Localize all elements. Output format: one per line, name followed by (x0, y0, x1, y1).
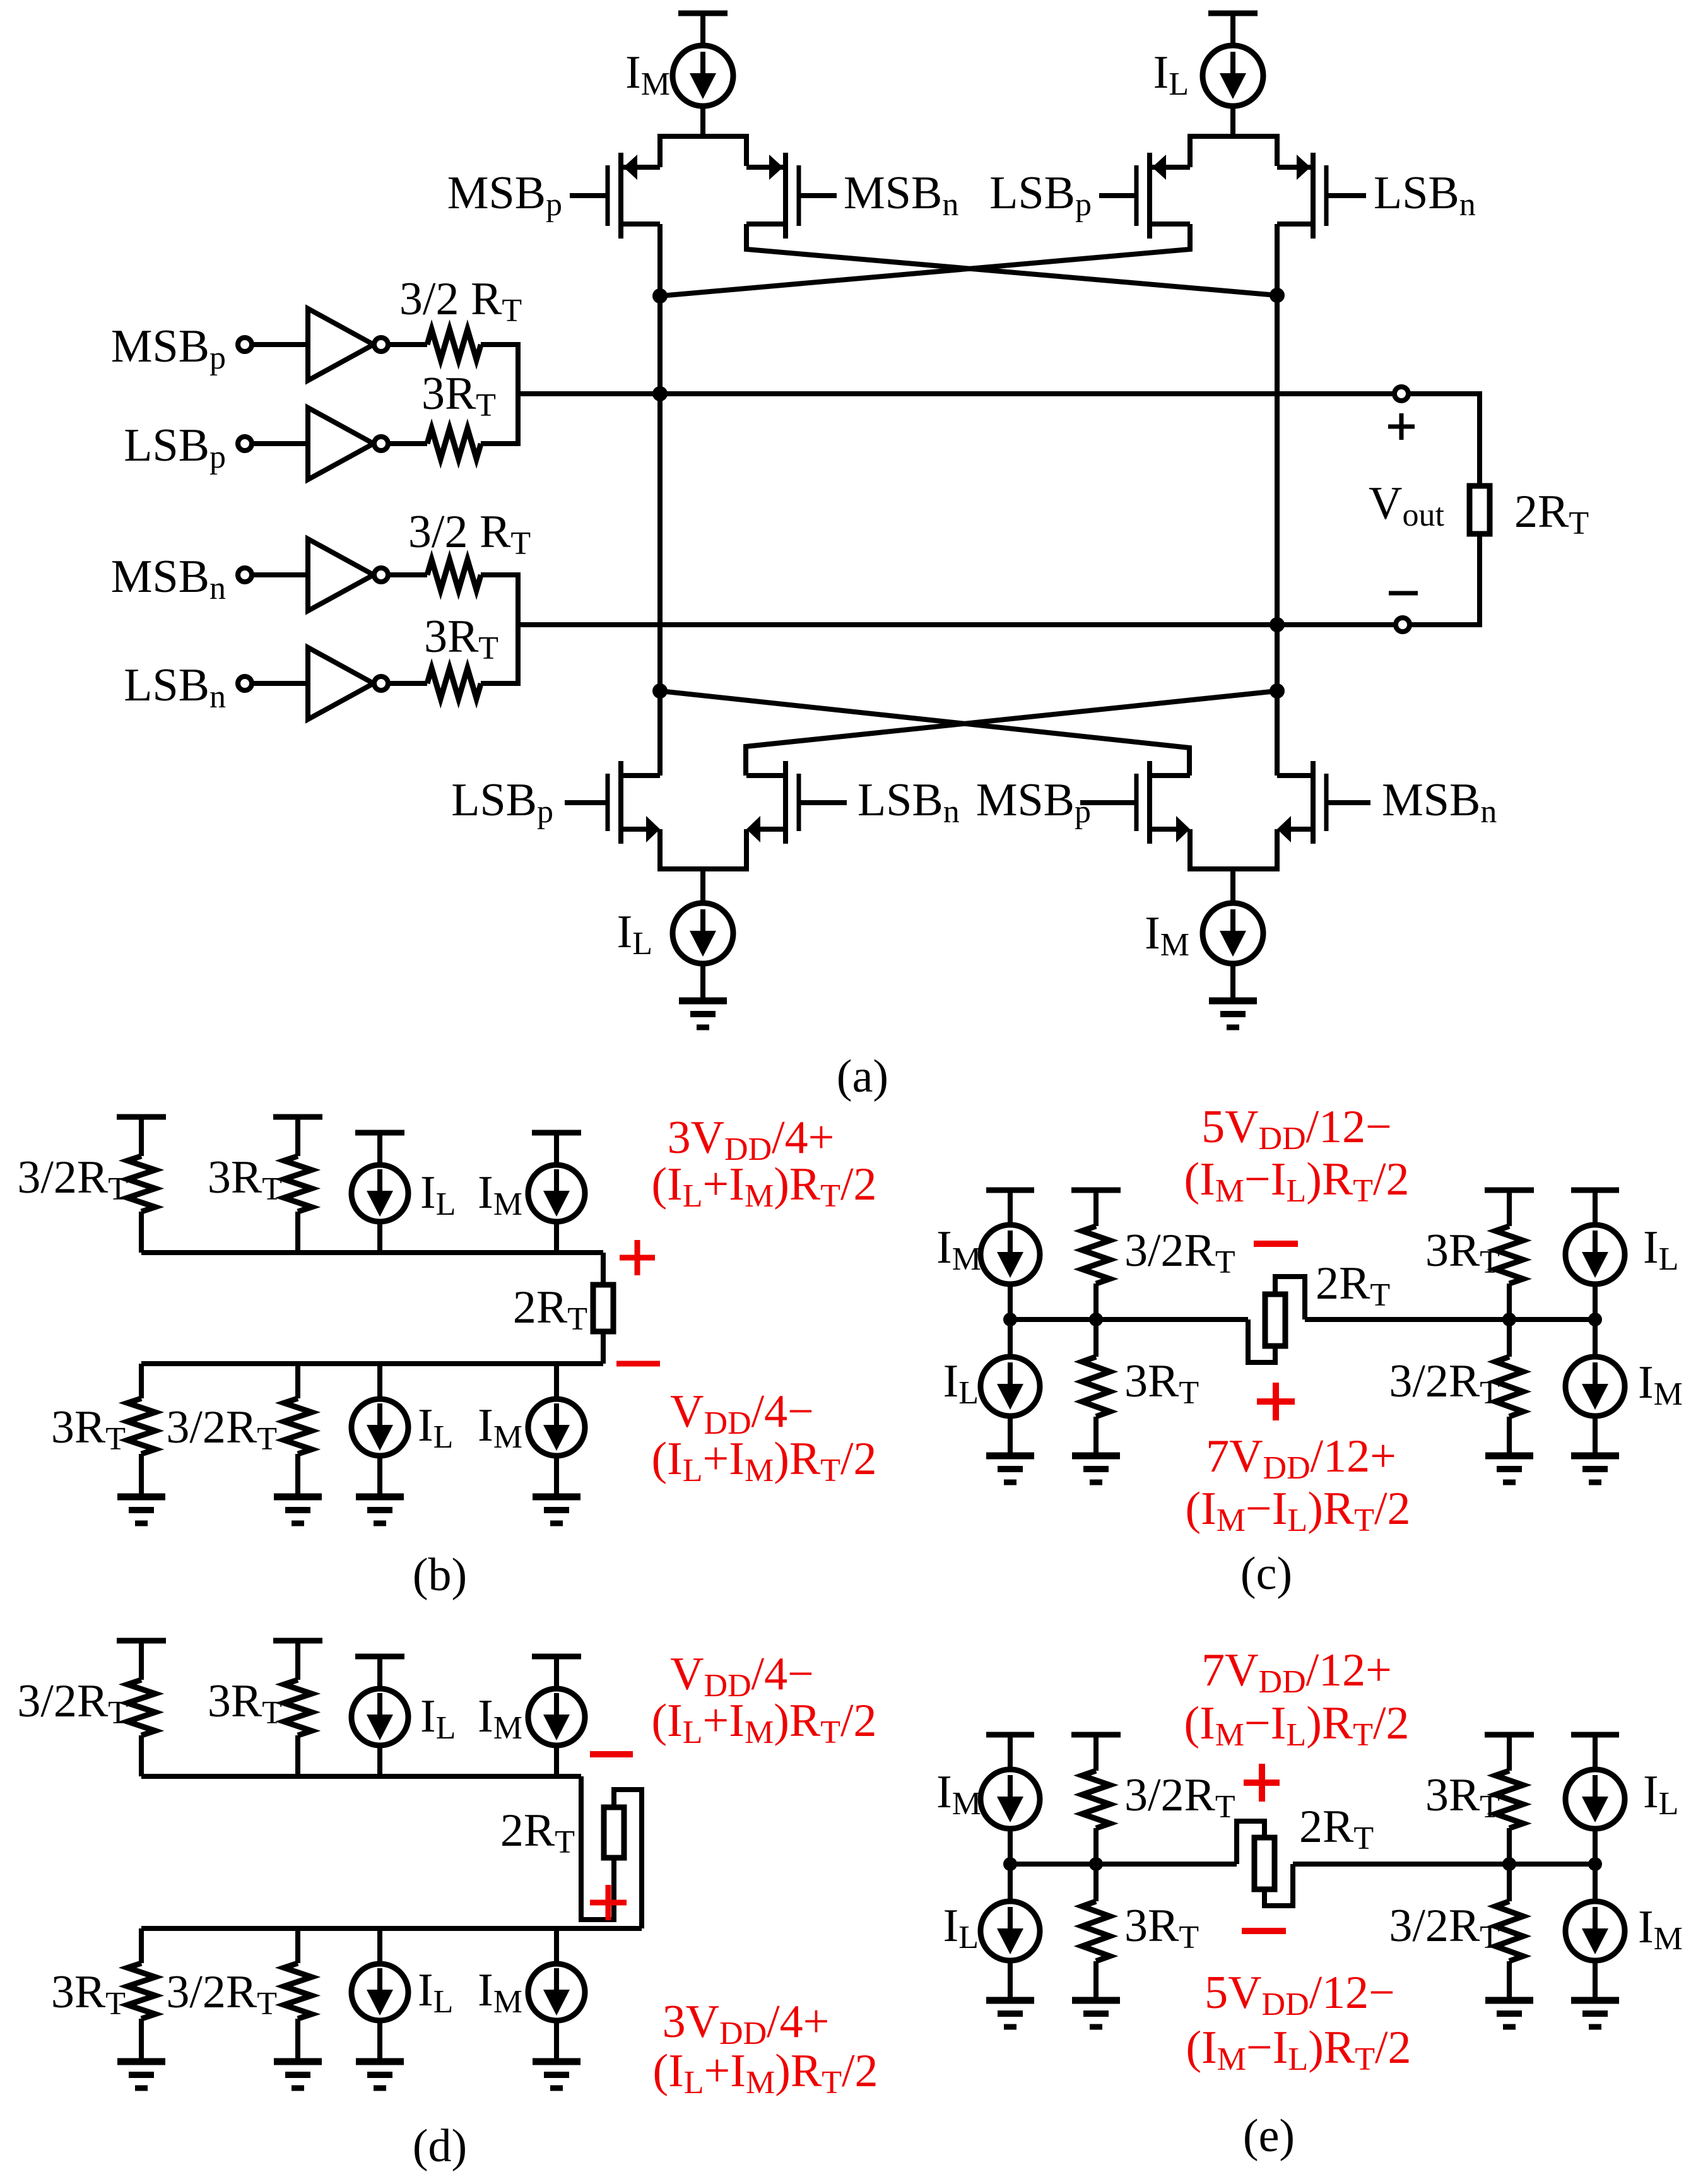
current source IM (b top) (528, 1165, 585, 1253)
transistor M1 PMOS MSBp (608, 153, 660, 239)
wire IM to ground (1230, 963, 1235, 1001)
current source IM (c top-left) (981, 1225, 1040, 1319)
transistor M7 NMOS MSBp (1136, 761, 1190, 844)
wire inverter 1 to resistor (388, 342, 427, 347)
wire gate M4 (1328, 193, 1366, 198)
current source IL (e bottom-left) (981, 1864, 1040, 2000)
node dot R (c right) (1502, 1313, 1516, 1326)
label IM (b bottom) (478, 1400, 522, 1455)
ground IL (d) (356, 2062, 404, 2088)
ground IM (b) (533, 1497, 580, 1523)
ground 3/2RT (d) (274, 2062, 322, 2088)
wire gate M2 (801, 193, 837, 198)
label 3/2RT (c top-left) (1124, 1225, 1235, 1280)
terminal - output (1396, 618, 1410, 632)
label (a) (837, 1051, 888, 1102)
current source IM (e bottom-right) (1565, 1864, 1625, 2000)
label IL (e top-right) (1643, 1766, 1678, 1822)
wire M3 drain cross to left rail (660, 224, 1190, 296)
label red formula (d) (670, 1648, 814, 1704)
label MSBn (inverter input) (111, 551, 226, 606)
wire M2 drain cross to right rail (746, 224, 1277, 295)
node dot IM/IL (c left) (1003, 1313, 1017, 1326)
label LSBp (M3 gate) (989, 167, 1092, 223)
label IM (c bottom-right) (1638, 1357, 1683, 1412)
wire inverter 3 to resistor (388, 572, 427, 577)
power VDD bar 3RT (d top) (273, 1641, 322, 1680)
label + red (c) (1257, 1383, 1295, 1420)
wire bottom bus (b) (141, 1331, 603, 1364)
label IL (c top-right) (1643, 1222, 1678, 1277)
resistor 3RT (c top-right) (1495, 1226, 1523, 1319)
ground (bottom-left) (679, 1001, 727, 1027)
wire cross left node to M5 pair (diag) (660, 691, 1189, 776)
label 3/2RT (e bottom-right) (1389, 1900, 1500, 1956)
power VDD bar IL (d top) (355, 1656, 404, 1689)
label + red (b) (620, 1240, 655, 1275)
wire jog left (e) (1237, 1821, 1264, 1864)
ground 3/2RT (c right) (1485, 1456, 1533, 1482)
wire resistor row 2 to bus (481, 441, 521, 446)
node dot - line / right rail (1270, 617, 1285, 632)
label + red (d) (590, 1885, 627, 1920)
ground 3/2RT (e right) (1485, 2000, 1533, 2027)
resistor 3RT (e bottom-left) (1082, 1864, 1110, 2000)
power VDD bar 3/2RT (e) (1071, 1735, 1121, 1771)
label 2RT (d) (500, 1805, 575, 1860)
ground 3RT (b) (117, 1497, 165, 1523)
label MSBn (M8 gate) (1382, 774, 1497, 830)
resistor 3/2RT (e bottom-right) (1495, 1864, 1523, 2000)
resistor 3/2RT (b top) (127, 1156, 155, 1253)
power VDD bar 3RT (e) (1485, 1735, 1534, 1771)
label MSBp (M1 gate) (447, 167, 562, 223)
resistor 3/2RT (d bottom) (284, 1928, 312, 2062)
wire resistor row 1 to bus (481, 342, 521, 347)
resistor 3RT (e top-right) (1495, 1771, 1523, 1864)
current source IL (top-right) (1203, 45, 1263, 106)
label red formula (b) (668, 1112, 835, 1167)
ground IM (e right) (1571, 2000, 1619, 2027)
svg-text:MSBn​: MSBn​ (844, 167, 958, 223)
label 3RT (d bottom) (51, 1966, 126, 2022)
label IL (d bottom) (418, 1964, 453, 2020)
label red formula (d) (652, 2045, 878, 2101)
label 2RT (load) (1514, 486, 1589, 541)
wire + terminal to load (1408, 394, 1480, 486)
transistor M8 NMOS MSBn (1277, 761, 1326, 844)
resistor 3/2RT (e top-left) (1082, 1771, 1110, 1864)
wire top bus (d) (141, 1776, 614, 1920)
label + red (e) (1244, 1764, 1280, 1802)
resistor 2RT (d) (604, 1807, 624, 1858)
resistor 3/2RT (row 3) (427, 560, 481, 590)
power VDD bar 3/2RT (b top) (117, 1117, 166, 1156)
current source IL (e top-right) (1565, 1769, 1625, 1864)
current source IL (bottom-left) (673, 903, 733, 964)
label red formula (c) (1206, 1431, 1396, 1486)
resistor 3RT (b bottom) (127, 1364, 155, 1497)
label red formula (d) (651, 1695, 876, 1750)
label 3RT (b bottom) (51, 1402, 126, 1457)
resistor 3/2RT (c bottom-right) (1495, 1319, 1523, 1456)
label + (Vout polarity) (1388, 413, 1415, 440)
label 3/2RT (row 3) (408, 506, 531, 562)
ground IM (d) (533, 2062, 580, 2088)
power VDD bar IM (b top) (532, 1133, 581, 1165)
power VDD bar (top-right pair) (1208, 13, 1258, 46)
label (d) (413, 2120, 467, 2172)
current source IM (bottom-right) (1203, 903, 1263, 964)
power VDD bar 3RT (b top) (273, 1117, 322, 1156)
wire tail (bottom-right pair) (1190, 829, 1277, 904)
label 3/2RT (d bottom) (166, 1966, 277, 2022)
transistor M4 PMOS LSBn (1277, 153, 1326, 239)
label IM (e bottom-right) (1638, 1901, 1683, 1957)
svg-text:MSBp​: MSBp​ (976, 774, 1091, 830)
label IM (b top) (478, 1167, 522, 1222)
power VDD bar IM (d top) (532, 1656, 581, 1689)
label 3/2RT (b top) (17, 1152, 128, 1207)
label - red (b) (616, 1361, 660, 1367)
wire summing bus (n group) (516, 575, 521, 683)
wire gate M1 (570, 193, 606, 198)
current source IL (b top) (351, 1165, 408, 1253)
node dot right (top cross) (1270, 288, 1285, 303)
node dot R (c left) (1089, 1313, 1103, 1326)
inverter U4 (LSBn) (308, 647, 388, 719)
label IM (e top-left) (936, 1766, 981, 1822)
label - (Vout polarity) (1389, 591, 1418, 596)
resistor 3/2RT (row 1) (427, 329, 481, 360)
label 3RT (b top) (208, 1152, 282, 1207)
ground (bottom-right) (1209, 1001, 1257, 1027)
node dot IL/IM (c right) (1588, 1313, 1602, 1326)
label 3RT (row 2) (421, 368, 496, 423)
svg-text:(e): (e) (1243, 2110, 1295, 2162)
transistor M3 PMOS LSBp (1136, 153, 1190, 239)
inverter U3 (MSBn) (308, 539, 388, 611)
wire gate M6 (801, 800, 847, 805)
terminal input LSBp (238, 437, 252, 451)
current source IM (c bottom-right) (1565, 1319, 1625, 1456)
wire left bus (c) (1010, 1317, 1248, 1322)
wire input to inverter 3 (252, 572, 308, 577)
label LSBp (inverter input) (124, 420, 226, 475)
label red formula (b) (670, 1386, 814, 1441)
svg-text:(c): (c) (1240, 1548, 1292, 1600)
resistor 3/2RT (c top-left) (1082, 1226, 1110, 1319)
node dot IL/IM (e right) (1588, 1857, 1602, 1871)
svg-text:MSBp​: MSBp​ (447, 167, 562, 223)
power VDD bar IL (b top) (355, 1133, 404, 1165)
wire inverter 4 to resistor (388, 681, 427, 686)
wire input to inverter 1 (252, 342, 308, 347)
current source IM (top-left) (673, 45, 733, 106)
label 3RT (c bottom-left) (1124, 1355, 1199, 1411)
resistor 3/2RT (d top) (127, 1680, 155, 1776)
label IL (c bottom-left) (943, 1355, 979, 1411)
label Vout (1369, 478, 1444, 533)
label LSBn (inverter input) (124, 659, 226, 715)
resistor 2RT (b) (593, 1285, 613, 1331)
wire jog left (c) (1248, 1319, 1275, 1362)
label IL (b top) (420, 1167, 456, 1222)
wire gate M5 (565, 800, 606, 805)
label red formula (d) (663, 1996, 830, 2051)
wire input to inverter 2 (252, 441, 308, 446)
power VDD bar 3RT (c) (1485, 1190, 1534, 1226)
current source IL (b bottom) (351, 1364, 408, 1497)
label IL (d top) (420, 1691, 456, 1746)
resistor 3RT (row 4) (427, 668, 481, 699)
node dot IM/IL (e left) (1003, 1857, 1017, 1871)
transistor M6 NMOS LSBn (746, 761, 799, 844)
label IM (d bottom) (478, 1964, 522, 2020)
transistor M5 NMOS LSBp (608, 761, 660, 844)
wire cross to right node (diag) (746, 691, 1277, 776)
current source IL (c bottom-left) (981, 1319, 1040, 1456)
wire inverter 2 to resistor (388, 441, 427, 446)
resistor 3RT (row 2) (427, 428, 481, 459)
node dot right (bottom cross) (1270, 683, 1285, 699)
ground IL (e left) (986, 2000, 1034, 2027)
inverter U1 (MSBp) (308, 309, 388, 381)
wire left output rail (657, 224, 663, 776)
resistor 3RT (b top) (284, 1156, 312, 1253)
current source IL (d bottom) (351, 1928, 408, 2062)
power VDD bar IM (e) (986, 1735, 1034, 1769)
label 3RT (e top-right) (1425, 1769, 1500, 1825)
node dot + line / left rail (652, 386, 668, 401)
label red formula (e) (1201, 1644, 1392, 1700)
label (c) (1240, 1548, 1292, 1600)
current source IM (b bottom) (528, 1364, 585, 1497)
label red formula (e) (1205, 1967, 1395, 2022)
label 2RT (e) (1299, 1801, 1374, 1856)
wire tail (top-left pair) (660, 105, 746, 167)
svg-text:(d): (d) (413, 2120, 467, 2172)
wire resistor row 4 to bus (481, 681, 521, 686)
wire tail (top-right pair) (1190, 105, 1277, 167)
label - red (d) (590, 1751, 633, 1757)
label 3RT (e bottom-left) (1124, 1900, 1199, 1956)
label red formula (c) (1185, 1483, 1410, 1538)
ground 3RT (e left) (1072, 2000, 1120, 2027)
terminal + output (1394, 387, 1408, 401)
label - red (e) (1242, 1928, 1286, 1934)
wire gate M8 (1328, 800, 1370, 805)
current source IL (d top) (351, 1689, 408, 1776)
ground IL (c left) (986, 1456, 1034, 1482)
svg-text:MSBn​: MSBn​ (1382, 774, 1497, 830)
node dot R (e right) (1502, 1857, 1516, 1871)
label IM (d top) (478, 1691, 522, 1746)
svg-text:MSBn​: MSBn​ (111, 551, 226, 606)
resistor 2RT (e) (1254, 1838, 1275, 1889)
label 3/2RT (b bottom) (166, 1402, 277, 1457)
resistor 3RT (d bottom) (127, 1928, 155, 2062)
label 3/2RT (d top) (17, 1675, 128, 1731)
power VDD bar 3/2RT (c) (1071, 1190, 1121, 1226)
wire bottom bus (d) (141, 1790, 642, 1928)
label IL (b bottom) (418, 1400, 453, 1455)
label MSBp (inverter input) (111, 321, 226, 376)
power VDD bar (top-left pair) (678, 13, 728, 46)
wire right bus (c) (1305, 1317, 1595, 1322)
label red formula (e) (1186, 2022, 1411, 2077)
ground 3RT (c left) (1072, 1456, 1120, 1482)
wire IL to ground (700, 963, 705, 1001)
current source IL (c top-right) (1565, 1225, 1625, 1319)
label - red (c) (1254, 1241, 1298, 1247)
wire summing bus (p group) (516, 345, 521, 444)
label 3/2RT (row 1) (399, 273, 522, 329)
label red formula (e) (1184, 1697, 1409, 1753)
power VDD bar 3/2RT (d top) (117, 1641, 166, 1680)
label 3/2RT (e top-left) (1124, 1769, 1235, 1825)
power VDD bar IL (c) (1571, 1190, 1619, 1225)
svg-text:(b): (b) (413, 1549, 467, 1601)
label 3RT (c top-right) (1425, 1225, 1500, 1280)
wire gate M3 (1099, 193, 1134, 198)
wire load to - terminal (1410, 534, 1480, 625)
label 3RT (row 4) (424, 611, 498, 666)
resistor 3RT (d top) (284, 1680, 312, 1776)
label IM (top-left) (625, 47, 670, 102)
ground 3RT (d) (117, 2062, 165, 2088)
resistor 3RT (c bottom-left) (1082, 1319, 1110, 1456)
terminal input LSBn (238, 676, 252, 690)
node dot left (bottom cross) (652, 683, 668, 699)
wire - output line (518, 622, 1394, 627)
wire resistor row 3 to bus (481, 572, 521, 577)
wire input to inverter 4 (252, 681, 308, 686)
svg-text:MSBp​: MSBp​ (111, 321, 226, 376)
wire right output rail (1275, 224, 1280, 776)
label red formula (c) (1184, 1154, 1409, 1209)
resistor 2RT (c) (1265, 1294, 1285, 1346)
node dot R (e left) (1089, 1857, 1103, 1871)
label (b) (413, 1549, 467, 1601)
label LSBn (M4 gate) (1374, 167, 1476, 223)
label red formula (c) (1201, 1101, 1392, 1157)
wire right bus (e) (1293, 1862, 1595, 1867)
resistor 2RT (load) (1470, 486, 1490, 534)
label LSBp (M5 gate) (451, 774, 553, 830)
wire top bus (b) (141, 1253, 603, 1285)
label LSBn (M6 gate) (857, 774, 960, 830)
wire tail (bottom-left pair) (660, 829, 746, 904)
label 2RT (c) (1316, 1258, 1390, 1313)
current source IM (e top-left) (981, 1769, 1040, 1864)
wire jog right (c) (1275, 1277, 1305, 1319)
label red formula (b) (651, 1159, 876, 1214)
node dot left (top cross) (652, 288, 668, 304)
current source IM (d bottom) (528, 1928, 585, 2062)
resistor 3/2RT (b bottom) (284, 1364, 312, 1497)
ground IM (c right) (1571, 1456, 1619, 1482)
wire gate M7 (1080, 800, 1134, 805)
label IL (e bottom-left) (943, 1900, 979, 1956)
wire + output line (518, 391, 1394, 396)
terminal input MSBn (238, 568, 252, 582)
label 2RT (b) (513, 1282, 587, 1337)
power VDD bar IL (e) (1571, 1735, 1619, 1769)
label MSBp (M7 gate) (976, 774, 1091, 830)
ground IL (b) (356, 1497, 404, 1523)
label IM (bottom-right) (1145, 907, 1189, 963)
label IL (top-right) (1153, 47, 1189, 102)
inverter U2 (LSBp) (308, 408, 388, 480)
label 3/2RT (c bottom-right) (1389, 1355, 1500, 1411)
transistor M2 PMOS MSBn (746, 153, 799, 239)
label (e) (1243, 2110, 1295, 2162)
power VDD bar IM (c) (986, 1190, 1034, 1225)
svg-text:(a): (a) (837, 1051, 888, 1102)
current source IM (d top) (528, 1689, 585, 1776)
label IM (c top-left) (936, 1222, 981, 1277)
wire jog right (e) (1264, 1864, 1293, 1906)
label red formula (b) (651, 1433, 876, 1489)
label 3RT (d top) (208, 1675, 282, 1731)
ground 3/2RT (b) (274, 1497, 322, 1523)
label IL (bottom-left) (617, 906, 652, 962)
terminal input MSBp (238, 338, 252, 351)
wire left bus (e) (1010, 1862, 1237, 1867)
label MSBn (M2 gate) (844, 167, 958, 223)
